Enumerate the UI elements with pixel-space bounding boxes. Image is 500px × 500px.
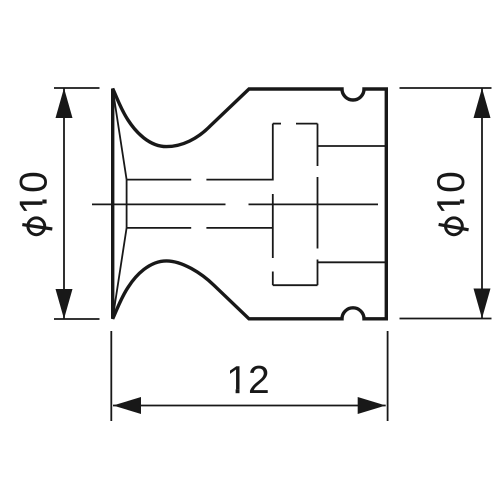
svg-text:12: 12	[226, 359, 269, 402]
svg-text:10: 10	[430, 171, 473, 214]
svg-text:10: 10	[12, 171, 55, 214]
